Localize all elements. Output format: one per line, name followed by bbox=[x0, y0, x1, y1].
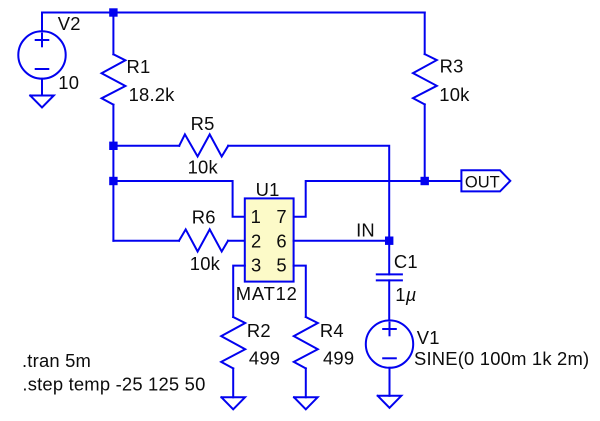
wire R5 right lead to C1 column bbox=[228, 146, 389, 241]
wire top rail V2 to R3 bbox=[42, 12, 425, 14]
svg-text:10: 10 bbox=[58, 72, 79, 93]
resistor R3 bbox=[413, 13, 437, 182]
voltage source V2 bbox=[18, 13, 65, 96]
svg-text:1µ: 1µ bbox=[395, 284, 416, 305]
node junction top (R1 tap) bbox=[109, 8, 117, 16]
svg-text:499: 499 bbox=[323, 347, 354, 368]
wire feedback to pin 1 bbox=[113, 181, 244, 217]
svg-text:499: 499 bbox=[249, 347, 280, 368]
wire R2 to ground bbox=[232, 368, 234, 397]
port flag OUT bbox=[461, 170, 510, 191]
svg-text:U1: U1 bbox=[256, 179, 280, 200]
wire R4 to ground bbox=[305, 368, 307, 397]
resistor R2 bbox=[221, 317, 245, 368]
capacitor C1 bbox=[377, 241, 402, 321]
svg-text:R4: R4 bbox=[320, 320, 344, 341]
svg-text:1: 1 bbox=[251, 206, 261, 227]
op-amp pair U1 body bbox=[245, 198, 294, 281]
svg-text:2: 2 bbox=[251, 231, 261, 252]
wire R5 left lead bbox=[113, 145, 179, 147]
svg-text:10k: 10k bbox=[439, 84, 470, 105]
svg-text:7: 7 bbox=[276, 206, 286, 227]
svg-text:R3: R3 bbox=[440, 56, 464, 77]
svg-text:IN: IN bbox=[356, 219, 375, 240]
wire R6 to pin 2 bbox=[228, 240, 245, 242]
resistor R5 bbox=[179, 134, 228, 156]
ground below R4 bbox=[294, 397, 318, 409]
wire R1 bottom down left column bbox=[112, 105, 114, 241]
svg-text:5: 5 bbox=[276, 254, 286, 275]
resistor R1 bbox=[102, 13, 126, 105]
wire R6 left lead bbox=[113, 240, 179, 242]
ground below V2 bbox=[30, 96, 54, 108]
node junction at OUT feedback tap bbox=[109, 177, 117, 185]
wire pin 5 down to R4 bbox=[294, 266, 306, 317]
svg-text:.tran 5m: .tran 5m bbox=[22, 350, 91, 371]
svg-text:R6: R6 bbox=[192, 207, 216, 228]
voltage source V1 bbox=[366, 320, 413, 395]
svg-text:R5: R5 bbox=[191, 113, 215, 134]
svg-text:18.2k: 18.2k bbox=[129, 84, 176, 105]
ground below R2 bbox=[221, 397, 245, 409]
svg-text:10k: 10k bbox=[190, 253, 221, 274]
svg-text:OUT: OUT bbox=[465, 173, 500, 191]
node junction at R5 tap bbox=[109, 142, 117, 150]
svg-text:.step temp -25 125 50: .step temp -25 125 50 bbox=[22, 374, 205, 395]
svg-text:V2: V2 bbox=[58, 13, 81, 34]
svg-text:6: 6 bbox=[276, 231, 286, 252]
resistor R6 bbox=[179, 229, 228, 251]
svg-text:V1: V1 bbox=[417, 327, 440, 348]
resistor R4 bbox=[294, 317, 318, 368]
svg-text:3: 3 bbox=[251, 254, 261, 275]
svg-text:R2: R2 bbox=[247, 320, 271, 341]
node junction IN bbox=[385, 237, 393, 245]
svg-text:MAT12: MAT12 bbox=[236, 283, 298, 304]
wire pin 7 to OUT bbox=[294, 181, 462, 217]
ground below V1 bbox=[378, 396, 402, 408]
svg-text:C1: C1 bbox=[394, 251, 418, 272]
wire pin 3 down to R2 bbox=[233, 266, 245, 317]
node junction OUT bbox=[421, 177, 429, 185]
svg-text:R1: R1 bbox=[127, 56, 151, 77]
svg-text:10k: 10k bbox=[188, 156, 219, 177]
svg-text:SINE(0 100m 1k 2m): SINE(0 100m 1k 2m) bbox=[414, 348, 589, 369]
wire pin 6 to IN node bbox=[294, 240, 390, 242]
